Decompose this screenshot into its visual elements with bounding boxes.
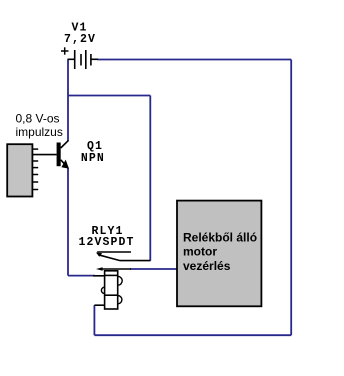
wire: bottom-left vertical up to relay coil pin (93, 305, 95, 335)
relay coil top pin (93, 275, 105, 277)
transistor Q1 base bar (57, 143, 61, 167)
svg-text:12VSPDT: 12VSPDT (79, 236, 135, 249)
svg-text:Relékből álló: Relékből álló (183, 231, 257, 245)
relay coil divider 2 (105, 294, 118, 296)
relay coil bump right top (118, 276, 123, 285)
relay coil bump right bottom (118, 296, 122, 304)
connector pin 2 / wire to Q1 base (32, 154, 56, 156)
svg-text:vezérlés: vezérlés (183, 259, 231, 273)
connector pin 7 (32, 189, 38, 191)
transistor Q1 emitter stroke (61, 160, 68, 168)
wire: top horizontal from battery to right side (98, 59, 292, 61)
connector pin 3 (32, 160, 38, 162)
relay RLY1 armature arrow (upper) (96, 253, 102, 257)
relay RLY1 NC contact line (97, 251, 131, 253)
svg-text:7,2V: 7,2V (64, 33, 96, 46)
battery V1 (68, 50, 99, 69)
relay RLY1 coil body (105, 271, 118, 309)
relay RLY1 NO contact line (102, 268, 132, 270)
connector pin 5 (32, 174, 38, 176)
transistor Q1 collector stroke (61, 140, 69, 148)
wire: vertical x=150 down to relay common (149, 96, 151, 261)
svg-text:impulzus: impulzus (16, 125, 63, 139)
connector pin 6 (32, 181, 38, 183)
connector pin 4 (32, 167, 38, 169)
battery plus sign (61, 47, 69, 54)
relay coil bottom pin (94, 304, 104, 306)
wire: horizontal from left rail to x=150 (68, 95, 150, 97)
motor control block (177, 201, 261, 307)
wire: Q1 emitter down (67, 168, 69, 276)
connector J1 body (7, 144, 32, 196)
svg-text:motor: motor (183, 245, 217, 259)
wire: battery left lead down to Q1 collector (67, 60, 69, 142)
connector pin 1 (32, 148, 38, 150)
wire: relay NO contact to motor box (130, 268, 178, 270)
wire: to relay coil top pin (68, 275, 95, 277)
transistor Q1 emitter arrow (62, 161, 68, 168)
relay RLY1 armature (99, 255, 151, 261)
relay coil divider 1 (105, 274, 118, 276)
svg-text:NPN: NPN (81, 152, 105, 165)
relay coil bump left (101, 287, 104, 293)
svg-text:0,8 V-os: 0,8 V-os (16, 111, 60, 125)
relay RLY1 NO contact arrow (96, 267, 103, 271)
wire: bottom horizontal (94, 334, 291, 336)
wire: right vertical (290, 60, 292, 336)
